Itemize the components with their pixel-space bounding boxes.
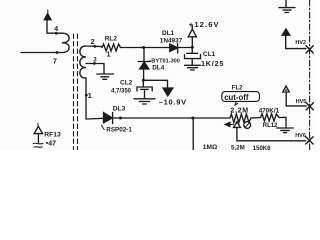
svg-text:4,7/350: 4,7/350 <box>111 88 132 94</box>
svg-text:–10.9V: –10.9V <box>159 98 187 107</box>
svg-text:2,2M: 2,2M <box>230 107 248 114</box>
svg-text:HV6: HV6 <box>295 133 306 139</box>
svg-text:470K/1: 470K/1 <box>259 108 280 115</box>
svg-text:RL12: RL12 <box>263 123 278 129</box>
svg-text:CL1: CL1 <box>203 51 216 58</box>
svg-text:7: 7 <box>53 58 57 65</box>
svg-text:4: 4 <box>54 26 58 33</box>
svg-text:FL2: FL2 <box>232 85 243 91</box>
svg-text:3: 3 <box>93 57 97 64</box>
svg-text:RL2: RL2 <box>105 36 118 43</box>
svg-text:150K6: 150K6 <box>253 146 271 150</box>
svg-text:1: 1 <box>107 52 111 59</box>
svg-text:1MΩ: 1MΩ <box>203 144 218 150</box>
svg-text:RSP02-1: RSP02-1 <box>106 126 132 133</box>
svg-text:cut-off: cut-off <box>224 93 249 102</box>
svg-text:DL3: DL3 <box>113 106 126 113</box>
svg-text:HV2: HV2 <box>295 40 306 46</box>
svg-text:•47: •47 <box>46 141 56 148</box>
svg-text:1N4937: 1N4937 <box>160 38 183 45</box>
svg-text:DL4: DL4 <box>152 65 165 72</box>
svg-text:HV5: HV5 <box>296 99 307 105</box>
svg-text:DL1: DL1 <box>162 30 175 37</box>
svg-text:2: 2 <box>91 39 95 46</box>
svg-text:1K/25: 1K/25 <box>201 59 224 68</box>
svg-text:5,2M: 5,2M <box>231 144 245 150</box>
svg-text:RF13: RF13 <box>44 132 61 139</box>
svg-text:–BYT01-300: –BYT01-300 <box>148 58 180 64</box>
svg-text:+12.6V: +12.6V <box>189 20 220 29</box>
svg-text:CL2: CL2 <box>120 79 133 86</box>
